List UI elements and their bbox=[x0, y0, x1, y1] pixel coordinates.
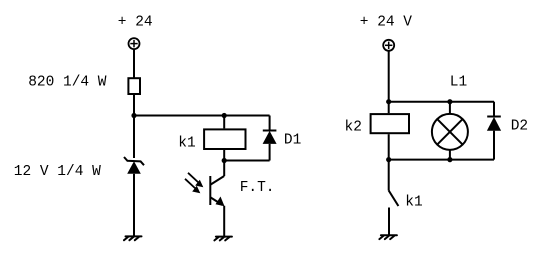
wire zener to ground bbox=[133, 174, 135, 237]
node C junction dot (relay bottom) bbox=[222, 158, 227, 163]
svg-text:k1: k1 bbox=[178, 135, 195, 151]
relay coil k2 bbox=[371, 114, 409, 133]
wire supply to node D bbox=[388, 51, 390, 102]
svg-text:F.T.: F.T. bbox=[240, 180, 275, 196]
node A junction dot bbox=[131, 113, 136, 118]
wire lamp top lead bbox=[449, 102, 451, 115]
svg-text:+ 24 V: + 24 V bbox=[360, 14, 413, 30]
svg-text:D1: D1 bbox=[284, 133, 301, 149]
wire supply to resistor bbox=[133, 49, 135, 78]
phototransistor emitter wire bbox=[223, 206, 225, 237]
resistor R1 820 bbox=[128, 78, 140, 94]
phototransistor Q1 collector wire bbox=[223, 161, 225, 177]
wire resistor to node A bbox=[133, 95, 135, 116]
relay coil k1 bbox=[204, 129, 245, 149]
wire top rail to D2 bbox=[389, 101, 494, 103]
power terminal +24 (left) bbox=[129, 38, 140, 49]
svg-text:820 1/4 W: 820 1/4 W bbox=[28, 74, 107, 90]
svg-text:+ 24: + 24 bbox=[118, 14, 153, 30]
ground (phototransistor) bbox=[214, 237, 232, 241]
switch k1 blade bbox=[389, 191, 399, 207]
phototransistor Q1 bbox=[210, 176, 224, 206]
svg-text:L1: L1 bbox=[450, 75, 467, 91]
wire relay k2 to node F bbox=[388, 134, 390, 159]
node B junction dot (relay top) bbox=[222, 113, 227, 118]
wire bottom rail bbox=[389, 159, 494, 161]
switch lower contact wire bbox=[388, 208, 390, 236]
wire relay coil to node C bbox=[223, 150, 225, 161]
wire node A to zener bbox=[133, 116, 135, 159]
ground (switch) bbox=[379, 235, 397, 239]
svg-text:k2: k2 bbox=[345, 120, 362, 136]
wire lamp bottom lead bbox=[449, 150, 451, 160]
svg-text:12 V 1/4 W: 12 V 1/4 W bbox=[14, 164, 101, 180]
ground (left) bbox=[124, 236, 142, 240]
light arrow 1 bbox=[188, 173, 203, 188]
lamp L1 bbox=[432, 114, 468, 150]
power terminal +24 (right) bbox=[383, 40, 394, 51]
wire node D to relay k2 bbox=[388, 102, 390, 114]
wire node C to D1 bottom (horizontal) bbox=[224, 160, 269, 162]
diode D2 bbox=[487, 102, 501, 160]
wire node F to switch bbox=[388, 160, 390, 191]
node D junction dot bbox=[386, 99, 391, 104]
svg-text:k1: k1 bbox=[405, 194, 422, 210]
zener diode Z1 12V bbox=[124, 157, 144, 174]
wire node B to relay coil bbox=[223, 116, 225, 129]
svg-text:D2: D2 bbox=[511, 119, 528, 135]
node G junction dot (lamp bottom) bbox=[447, 157, 452, 162]
node F junction dot bbox=[386, 157, 391, 162]
node E junction dot (lamp top) bbox=[447, 99, 452, 104]
light arrow 2 bbox=[185, 179, 200, 194]
diode D1 bbox=[263, 116, 277, 161]
wire node A to D1 top (horizontal) bbox=[134, 115, 270, 117]
